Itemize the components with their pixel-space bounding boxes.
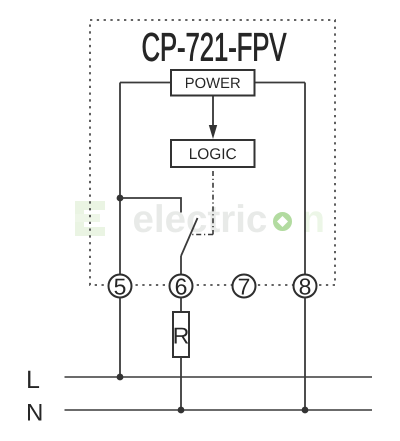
LOGIC block U2 — [171, 140, 255, 167]
wire: left horizontal to POWER — [120, 82, 171, 84]
watermark logo E mark — [75, 201, 105, 236]
junction node on terminal-5 wire — [117, 195, 124, 202]
dash-dot control link LOGIC to relay contact — [192, 169, 213, 235]
junction node L wire / terminal 5 — [117, 374, 124, 381]
watermark text n — [304, 211, 323, 232]
wire: terminal 6 down to resistor — [180, 297, 182, 312]
junction node N wire / terminal 8 — [302, 407, 309, 414]
wire: terminal 5 down to L — [119, 297, 121, 377]
wire: terminal 8 up to POWER — [304, 83, 306, 275]
terminal 6 — [170, 275, 193, 298]
watermark green o mark — [276, 215, 289, 228]
net label N — [28, 404, 41, 421]
wire: terminal 5 up to POWER — [119, 83, 121, 275]
wire: right horizontal from POWER — [255, 82, 306, 84]
dotted enclosure box — [90, 20, 335, 285]
net label L — [28, 371, 39, 388]
watermark text electric — [134, 204, 266, 232]
relay contact blade K1 — [181, 218, 198, 256]
terminal 5 — [109, 275, 132, 298]
wire: blade to terminal 6 — [180, 256, 182, 275]
wire: terminal 8 down to N — [304, 297, 306, 410]
terminal 8 — [294, 275, 317, 298]
wire: resistor down to N — [180, 357, 182, 410]
junction node N wire / resistor — [178, 407, 185, 414]
title CP-721-FPV — [143, 33, 286, 61]
POWER block U1 — [171, 70, 255, 96]
wire: branch to relay fixed contact — [120, 198, 181, 213]
net N line — [65, 409, 373, 411]
terminal 7 — [233, 275, 256, 298]
resistor R — [173, 312, 189, 357]
arrow POWER to LOGIC — [209, 96, 217, 140]
net L line — [65, 376, 373, 378]
